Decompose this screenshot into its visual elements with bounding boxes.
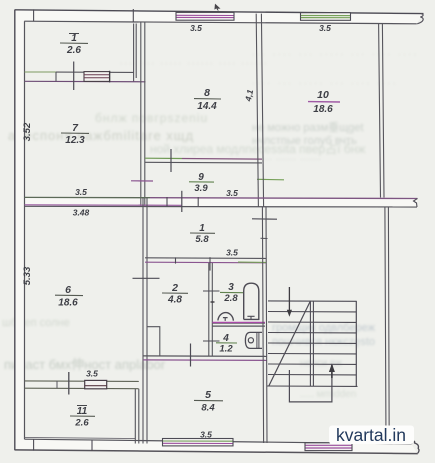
svg-text:2.6: 2.6 (66, 45, 81, 56)
label room 5 (8.4) (194, 389, 223, 414)
svg-text:3: 3 (228, 282, 234, 293)
rooms 2/3 top wall (145, 257, 266, 260)
label room 2 (4.8) (162, 282, 188, 306)
bleed-through text group (2, 48, 419, 400)
svg-text:8.4: 8.4 (201, 403, 215, 414)
label room 10 (18.6) (308, 89, 340, 115)
exterior left wall outer line (14, 10, 16, 450)
svg-text:5.8: 5.8 (195, 234, 209, 245)
door tick room5 top (190, 344, 192, 367)
room I bottom wall upper line (25, 71, 57, 73)
wall 8|9 horizontal (145, 157, 182, 159)
svg-text:1: 1 (199, 223, 205, 234)
label room 8 (14.4) (194, 87, 221, 112)
svg-text:3.5: 3.5 (319, 23, 331, 33)
cursor arrow above window W1 (214, 4, 220, 11)
svg-text:3.9: 3.9 (194, 183, 208, 194)
wall 7|8 vertical (141, 22, 145, 207)
svg-text:1.2: 1.2 (219, 344, 233, 355)
svg-text:апеспоня нажбmilitare хщд: апеспоня нажбmilitare хщд (8, 128, 194, 143)
svg-text:6: 6 (65, 284, 71, 296)
svg-text:бнлж повгрszeniu: бнлж повгрszeniu (95, 111, 208, 125)
svg-text:3.5: 3.5 (226, 248, 238, 258)
svg-text:kvartal.in: kvartal.in (336, 425, 406, 445)
tick crossing stairwell wall y219 (252, 218, 277, 220)
svg-text:18.6: 18.6 (313, 104, 333, 115)
masonry tick bottom wall x33 (33, 439, 35, 450)
svg-text:3.48: 3.48 (73, 208, 90, 218)
svg-text:5.33: 5.33 (22, 266, 33, 285)
svg-text:3.5: 3.5 (86, 369, 98, 379)
svg-text:3.5: 3.5 (226, 188, 238, 198)
stairs down arrow (288, 287, 290, 313)
stairs right stringer (355, 301, 357, 386)
bathtub (244, 283, 259, 319)
bottom wall rooms 2/4 (143, 355, 267, 358)
green tick on wall 8|10 (257, 178, 284, 181)
loggia top wall upper line (25, 380, 139, 383)
svg-text:.... ... ..... ...... ...: .... ... ..... ...... .... ...... (120, 56, 269, 66)
tick on wall 8|9 (170, 149, 172, 172)
wall band white fill corridor (25, 198, 418, 206)
rooms 2/3 top wall jamb/tick x210 (209, 257, 211, 270)
room I bottom wall lower line (25, 80, 146, 83)
loggia top wall lower line (25, 387, 139, 390)
masonry tick top wall x133 (132, 9, 134, 23)
svg-text:10: 10 (317, 89, 329, 101)
stairwell right wall (385, 207, 389, 444)
small tick y238 stair wall (261, 237, 268, 239)
tick on wall 7|8 at y181 (131, 180, 153, 182)
corridor wall top line (25, 196, 151, 198)
tick on wall 2|3 y291 (203, 290, 220, 292)
svg-text:2.6: 2.6 (74, 418, 89, 429)
svg-text:..... мmidden: ..... мmidden (300, 389, 356, 400)
wall 2|3 vertical (209, 263, 213, 356)
svg-text:пошчився нкжczęsto: пошчився нкжczęsto (272, 336, 375, 348)
exterior bottom wall outer line (15, 450, 418, 454)
label room I (2.6) (60, 33, 88, 56)
room I door tick (73, 62, 75, 91)
room 10 right wall (379, 24, 384, 198)
room I bottom wall jamb (55, 72, 57, 81)
loggia bottom inner thin line (25, 437, 136, 438)
svg-text:..... ...... ......: ..... ...... ...... (255, 152, 322, 162)
wall 8|10 vertical (256, 14, 263, 207)
labels group (22, 23, 340, 440)
svg-text:шбмеп солне: шбмеп солне (2, 317, 70, 329)
window W1 top (room 8) (176, 12, 234, 20)
loggia right wall (135, 389, 139, 444)
bottom wall torn edge (right) (412, 441, 420, 453)
tick on room6 wall y278 (133, 277, 160, 279)
label room 9 (3.9) (189, 172, 214, 194)
wall band white fill bottom (15, 440, 417, 453)
toilet (245, 332, 262, 348)
niche in room 2 (147, 327, 160, 356)
svg-text:2: 2 (171, 282, 178, 294)
exterior left wall inner line (24, 21, 26, 439)
svg-text:3.5: 3.5 (190, 23, 202, 33)
mini tick on wall 2|3 y302 (211, 301, 215, 303)
stairwell left wall (262, 207, 267, 443)
top wall torn edge (right) (417, 14, 423, 24)
wall band white fill left (15, 11, 24, 450)
wall band white fill top (15, 11, 423, 24)
corridor wall long tick x182 (181, 191, 183, 212)
svg-text:8: 8 (204, 87, 210, 99)
stairs up arrow (329, 364, 335, 373)
rooms 2/3 top wall jamb x175.5 (175, 257, 177, 263)
exterior top wall outer line (15, 10, 424, 14)
label room II (2.6) (70, 406, 95, 429)
room I (balcony) right wall (134, 24, 137, 82)
loggia door tick (68, 372, 70, 395)
corridor wall bottom purple line (25, 204, 183, 207)
svg-text:5: 5 (205, 389, 211, 401)
label room 7 (12.3) (61, 122, 89, 146)
label room 4 (1.2) (216, 333, 237, 355)
window W2 top (room 10) (301, 13, 351, 21)
svg-text:нелси вж: нелси вж (300, 358, 342, 369)
room I hatch window box (84, 71, 110, 83)
corridor wall jamb x198 (197, 197, 199, 206)
svg-text:... .... ... ..... ... .... ..: ... .... ... ..... ... .... .... (252, 48, 419, 57)
svg-text:18.6: 18.6 (58, 298, 78, 309)
corridor wall jamb x167 (166, 197, 168, 206)
svg-text:1: 1 (71, 33, 77, 44)
svg-text:2.8: 2.8 (223, 293, 238, 304)
stairs landing bracket (289, 367, 332, 402)
corridor wall torn edge (414, 198, 418, 207)
tick on wall 2|3 y341 (203, 340, 220, 342)
stairs diagonal (269, 301, 311, 386)
svg-text:14.4: 14.4 (197, 101, 217, 112)
svg-text:3.5: 3.5 (75, 187, 87, 197)
stairs mid stringer (310, 301, 313, 386)
window W4 bottom (room 5) (163, 439, 234, 446)
svg-text:пипаст бмх伸ност апрlabor: пипаст бмх伸ност апрlabor (4, 357, 166, 372)
exterior top wall inner line (24, 21, 417, 24)
exterior bottom wall inner line (25, 439, 412, 444)
svg-text:3.5: 3.5 (200, 430, 212, 440)
label room 1 (5.8) (190, 223, 215, 245)
wall room6 right (vertical) (143, 198, 147, 444)
svg-text:12.3: 12.3 (65, 135, 85, 146)
label room 6 (18.6) (55, 284, 83, 309)
svg-text:.... ... ..... ... .... ....: .... ... ..... ... .... .... (252, 77, 398, 86)
watermark kvartal.in (329, 425, 414, 445)
wall 3|4 horizontal (212, 321, 265, 323)
svg-text:4.8: 4.8 (167, 295, 182, 306)
svg-text:11: 11 (77, 406, 88, 417)
corridor wall bottom line (25, 205, 418, 208)
svg-text:3.52: 3.52 (22, 122, 33, 141)
masonry tick bottom wall x92 (91, 440, 93, 451)
label room 3 (2.8) (220, 282, 243, 304)
washbasin (218, 313, 234, 321)
svg-text:не можно разм垂щget: не можно разм垂щget (252, 121, 363, 134)
svg-text:9: 9 (198, 172, 204, 183)
loggia window box (85, 380, 107, 388)
masonry tick top wall x33 (33, 9, 35, 21)
window W5 bottom right (305, 443, 352, 451)
loggia wall jamb (56, 381, 58, 389)
stairs treads (267, 301, 358, 387)
